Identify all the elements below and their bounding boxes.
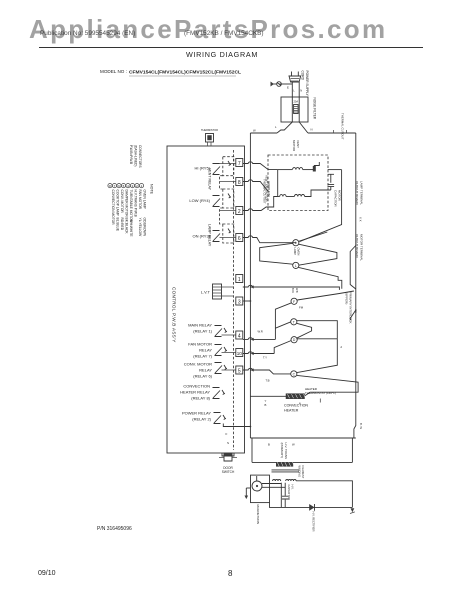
label B W near right bus above box (359, 423, 363, 429)
legend circled numbers 1-8 (108, 184, 144, 188)
svg-text:OD:BROWN: OD:BROWN (143, 218, 147, 237)
magnetron chassis ground (245, 488, 251, 499)
svg-text:20A: 20A (293, 100, 298, 104)
svg-text:FAN MOTOR: FAN MOTOR (188, 342, 212, 347)
svg-text:CFMV154CL(FMV154CL)CFMV152CL(F: CFMV154CL(FMV154CL)CFMV152CL(FMV152CL (129, 69, 241, 75)
svg-text:ON (RY3): ON (RY3) (193, 234, 211, 239)
filament winding coil (273, 479, 281, 481)
right vertical bus wire (354, 133, 356, 438)
svg-text:MAGNETRON: MAGNETRON (256, 505, 260, 525)
svg-text:WINDING: WINDING (298, 466, 302, 478)
header rule (39, 47, 423, 49)
svg-text:AppliancePartsPros.com: AppliancePartsPros.com (29, 14, 386, 44)
turntable motor tap wire (275, 322, 291, 328)
relay contact FAN MOTOR RELAY (RELAY 7) (188, 342, 227, 359)
svg-text:VENT RELAY: VENT RELAY (208, 168, 212, 191)
legend numbered item list (111, 190, 147, 238)
svg-text:L.V.T: L.V.T (201, 290, 211, 295)
magnetron filament wires (262, 484, 285, 488)
legend NOTE label (150, 184, 154, 195)
tick marks on top right bus (334, 130, 347, 133)
lamp terminal output board label (355, 181, 363, 206)
fan motor left wire down to terminal 4 row (275, 303, 291, 340)
svg-text:POWER SUPPLY: POWER SUPPLY (305, 71, 309, 97)
svg-text:P.W.B=P/W.B: P.W.B=P/W.B (129, 145, 133, 164)
svg-text:MAIN RELAY: MAIN RELAY (188, 323, 212, 328)
wire row from terminal 5 to conv motor (243, 368, 291, 374)
svg-text:LAMP: LAMP (293, 248, 297, 256)
junction arrow marks on left bus (250, 285, 253, 371)
svg-text:W.R: W.R (258, 330, 263, 334)
svg-text:F: F (293, 300, 295, 304)
svg-text:BK:BLACK: BK:BLACK (125, 218, 129, 235)
primary interlock switch label (344, 292, 352, 324)
wire legs from noise filter to mains bus (277, 122, 308, 133)
noise filter label (313, 98, 317, 120)
svg-text:(RELAY 2): (RELAY 2) (192, 417, 211, 422)
svg-text:L: L (275, 125, 277, 129)
svg-text:DAMPER MOTOR: DAMPER MOTOR (125, 190, 129, 218)
svg-text:B: B (265, 403, 267, 407)
hv capacitor (281, 483, 294, 508)
svg-text:FM: FM (299, 306, 304, 310)
svg-text:L: L (295, 241, 297, 245)
svg-text:B.W: B.W (291, 288, 294, 293)
hv rectifier diode (309, 504, 315, 531)
svg-text:LAMP TERMINAL: LAMP TERMINAL (360, 181, 364, 205)
control board vertical label (172, 287, 177, 343)
svg-text:F: F (226, 432, 228, 436)
svg-text:C: C (293, 372, 296, 376)
lamp relay group label (208, 224, 212, 247)
fan motor right diagonal wire (297, 291, 354, 300)
magnetron label (256, 505, 260, 525)
terminal 4 wire row (243, 338, 276, 340)
svg-text:OVEN LAMP: OVEN LAMP (143, 190, 147, 210)
svg-text:T: T (293, 320, 295, 324)
cooktop lamp circle (293, 262, 299, 268)
hv bottom bus wire (270, 503, 353, 508)
svg-text:09/10: 09/10 (38, 570, 56, 577)
svg-text:(RELAY 8): (RELAY 8) (191, 396, 210, 401)
svg-text:T.B: T.B (266, 379, 270, 383)
fan motor circle F (291, 298, 304, 309)
vent motor label (292, 140, 300, 152)
terminal 7 wire to vent motor hi (243, 162, 278, 170)
terminal 8 wire to vent motor low (243, 180, 268, 192)
damper motor circle D (291, 337, 297, 343)
svg-text:BL:BLUE: BL:BLUE (116, 218, 120, 232)
relay contact ON (RY3) (193, 224, 234, 243)
svg-text:CAPACITOR: CAPACITOR (287, 485, 291, 500)
svg-text:L: L (293, 89, 295, 93)
svg-text:RD:RED: RD:RED (120, 218, 124, 231)
control board box CONTROL P.W.B ASS'Y (167, 146, 245, 453)
svg-text:W: W (292, 443, 295, 447)
svg-text:RELAY: RELAY (199, 348, 212, 353)
vent motor right side wire to lamp circuit (300, 170, 342, 242)
terminal 10 wire row (243, 352, 274, 354)
svg-text:CONTROL P.W.B ASS'Y: CONTROL P.W.B ASS'Y (172, 287, 177, 343)
svg-text:THERMAL CUTOUT: THERMAL CUTOUT (341, 113, 345, 140)
turntable motor right wires (297, 321, 337, 339)
svg-text:8: 8 (228, 569, 233, 578)
svg-text:N: N (300, 89, 302, 93)
svg-text:X X: X X (359, 217, 363, 222)
svg-text:FAN MOTOR: FAN MOTOR (138, 190, 142, 210)
svg-text:HEATER RELAY: HEATER RELAY (180, 390, 210, 395)
terminal 6 (236, 234, 243, 243)
svg-text:T.Y: T.Y (263, 356, 267, 360)
svg-text:H.V. RECTIFIER: H.V. RECTIFIER (312, 512, 316, 532)
svg-text:(PRIMARY): (PRIMARY) (280, 443, 284, 459)
svg-text:(UPPER): (UPPER) (344, 292, 348, 304)
svg-text:NOTE: NOTE (150, 184, 154, 195)
terminal 3 stub wire (243, 300, 251, 302)
relay contact CONVECTION HEATER RELAY (RELAY 8) (180, 384, 225, 401)
svg-text:D: D (293, 338, 296, 342)
svg-text:H.V.: H.V. (291, 485, 295, 490)
svg-text:THERMAL CUTOUT: THERMAL CUTOUT (263, 179, 267, 204)
oven lamp circle OL (293, 240, 299, 246)
svg-text:(HOOD FAN): (HOOD FAN) (267, 181, 271, 197)
damper motor left wire down to terminal 10 row (274, 341, 291, 354)
svg-text:CAPACITOR: CAPACITOR (334, 190, 338, 207)
right bus parallel branch wire (350, 246, 356, 290)
svg-text:MOTOR: MOTOR (292, 140, 296, 152)
vent motor high winding coil (278, 162, 320, 172)
svg-text:5: 5 (238, 369, 241, 375)
svg-text:LOW (RY4): LOW (RY4) (189, 198, 210, 203)
lamp wire to vent box diagonal (299, 232, 328, 241)
hv transformer primary winding (276, 462, 294, 467)
svg-text:(DASH-LINED): (DASH-LINED) (133, 145, 137, 166)
svg-text:YL:YELLOW: YL:YELLOW (138, 218, 142, 238)
terminal 5 (236, 366, 243, 375)
svg-text:(RELAY 6): (RELAY 6) (193, 374, 212, 379)
relay contact HI (RY5) (195, 157, 234, 176)
primary interlock switch contact (350, 310, 356, 319)
lamp wiring hexagon left (260, 243, 293, 264)
relay to terminal link wires (220, 164, 236, 371)
power supply plug (289, 72, 301, 83)
low voltage transformer L.V.T (201, 284, 234, 299)
svg-text:L: L (295, 264, 297, 268)
svg-text:TURNTABLE MOTOR: TURNTABLE MOTOR (129, 190, 133, 223)
hv winding to right bus wire (296, 481, 352, 508)
noise filter box (281, 97, 308, 122)
svg-text:CONV. MOTOR: CONV. MOTOR (184, 362, 212, 367)
terminal 8 (236, 178, 243, 187)
turntable motor circle T (291, 319, 297, 325)
wire color labels between box and motor (263, 179, 267, 204)
svg-text:CONNECTORS: CONNECTORS (138, 145, 142, 168)
svg-text:HEATER: HEATER (284, 409, 299, 413)
motor capacitor (328, 174, 342, 206)
wire mark labels above fan motor (291, 288, 294, 293)
hv transformer core lines (272, 470, 300, 472)
svg-text:(FMV152KB / FMV154CKB): (FMV152KB / FMV154CKB) (184, 30, 264, 37)
power relay output wire to bus (223, 424, 250, 427)
svg-text:MODEL NO :: MODEL NO : (100, 69, 127, 74)
terminal 6 wire to oven lamp (243, 236, 297, 243)
vent motor dashed enclosure (268, 155, 328, 211)
cord wires down to noise filter (292, 82, 299, 97)
terminal 3 (236, 297, 243, 306)
svg-text:W: W (253, 129, 256, 133)
svg-text:W.B: W.B (295, 288, 298, 293)
filament winding label (298, 466, 305, 479)
vent motor winding left leg wires (277, 170, 279, 197)
svg-text:CONVECTION: CONVECTION (284, 404, 308, 408)
relay contact MAIN RELAY (RELAY 1) (188, 323, 227, 337)
magnetron tube circle (252, 476, 262, 491)
svg-text:THERMISTOR: THERMISTOR (201, 128, 218, 132)
power supply cord label (300, 71, 309, 97)
svg-text:8: 8 (238, 180, 241, 186)
junction dot terminal 3 to bus (250, 300, 252, 302)
magnetron enclosure box (251, 475, 270, 503)
relay contact POWER RELAY (RELAY 2) (182, 411, 226, 424)
svg-text:RELAY: RELAY (199, 368, 212, 373)
junction dot power relay wire (250, 426, 252, 428)
terminal 1 (236, 275, 243, 284)
hv secondary winding coil (286, 479, 296, 481)
main bus wire right top (308, 132, 356, 134)
legend header CONNECTORS note (129, 145, 142, 168)
terminal 7 (236, 159, 243, 168)
svg-text:B. W: B. W (359, 423, 363, 429)
terminal 10 (236, 349, 243, 357)
relay contact CONV. MOTOR RELAY (RELAY 6) (184, 362, 227, 379)
svg-text:6: 6 (238, 236, 241, 242)
svg-text:CORD: CORD (300, 71, 304, 81)
svg-text:CONVECTION: CONVECTION (183, 384, 210, 389)
hv transformer label (280, 443, 288, 460)
svg-text:Publication No: 5995545294 (EN: Publication No: 5995545294 (EN) (40, 30, 135, 37)
oven lamp label (293, 248, 301, 256)
svg-text:FILAMENT: FILAMENT (301, 466, 305, 479)
svg-text:4: 4 (238, 334, 241, 340)
left vertical bus wire (249, 133, 251, 438)
conv fan motor circle C (291, 371, 297, 377)
dashed link wires relay boxes to internal bus (220, 176, 223, 224)
svg-text:B: B (268, 443, 270, 447)
svg-text:P/N 316495096: P/N 316495096 (97, 526, 132, 532)
vent relay group label (208, 168, 212, 191)
thermal cutout label near top right bus (341, 113, 345, 140)
svg-text:WIRING DIAGRAM: WIRING DIAGRAM (186, 50, 258, 59)
hv transformer primary enclosure box (250, 438, 355, 462)
convection heater element (250, 394, 320, 403)
svg-text:H.V.TRANS P/W.B: H.V.TRANS P/W.B (134, 190, 138, 218)
main bus wire left top (250, 132, 277, 134)
svg-text:S: S (227, 441, 229, 445)
terminal 2 wire to vent motor common (243, 197, 278, 211)
svg-text:OUTPUT BOARD: OUTPUT BOARD (355, 234, 359, 259)
svg-text:3: 3 (238, 300, 241, 306)
wire row to fan motor circle (250, 287, 339, 290)
svg-text:10: 10 (237, 351, 243, 356)
conv motor right wires (297, 339, 337, 373)
svg-text:(RELAY 1): (RELAY 1) (193, 329, 212, 334)
lamp wiring hexagon right (299, 244, 337, 265)
svg-text:POWER RELAY: POWER RELAY (182, 411, 211, 416)
svg-text:COOKTOP LAMP: COOKTOP LAMP (116, 190, 120, 217)
svg-text:E: E (287, 86, 289, 90)
vent motor low winding coil (278, 190, 331, 197)
vent fan motor side label (265, 175, 269, 202)
svg-text:WH:WHITE: WH:WHITE (129, 220, 133, 238)
terminal 4 (236, 331, 243, 340)
terminal 2 (236, 207, 243, 216)
svg-text:(RELAY 7): (RELAY 7) (193, 354, 212, 359)
svg-text:MOTOR TERMINAL: MOTOR TERMINAL (360, 234, 364, 261)
svg-text:SWITCH: SWITCH (222, 470, 235, 474)
svg-text:CONV. MOTOR: CONV. MOTOR (120, 190, 124, 214)
svg-text:1: 1 (238, 277, 241, 283)
svg-text:N: N (311, 128, 313, 132)
door sensing switch below control box (219, 441, 237, 474)
svg-text:THERMOSTAT (140°F): THERMOSTAT (140°F) (305, 391, 336, 395)
chassis ground at hv right (350, 508, 355, 513)
ground screw from power cord (271, 82, 293, 90)
wire gauge label X X (359, 217, 363, 222)
svg-text:d: d (341, 345, 343, 349)
svg-text:OUTPUT BOARD: OUTPUT BOARD (355, 181, 359, 206)
damper motor right wire (297, 338, 337, 340)
svg-text:7: 7 (238, 161, 241, 167)
svg-text:CONVECTION MOTOR: CONVECTION MOTOR (111, 190, 115, 226)
control board internal dashed bus line (233, 150, 235, 450)
motor terminal output board label (355, 234, 363, 261)
thermistor TH on top edge of control box (201, 128, 218, 146)
svg-text:2: 2 (238, 209, 241, 215)
relay contact LOW (RY4) (189, 189, 233, 208)
svg-text:NOISE FILTER: NOISE FILTER (313, 98, 317, 120)
cooktop lamp lower wires (299, 267, 342, 288)
